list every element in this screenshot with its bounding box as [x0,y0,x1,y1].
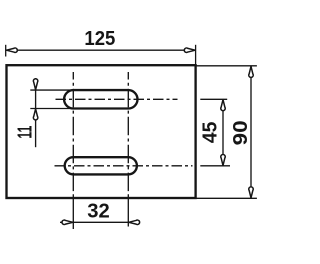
slot (obround hole) top [64,90,137,108]
centerline horizontal of bottom slot [55,165,193,167]
dimension 11: upper arrow (points down to slot top edge) [33,79,38,90]
dimension 32: right extension line (below plate) [127,199,129,227]
slot (obround hole) bottom [65,157,137,174]
dimension 90: lower extension line (plate bottom edge extended) [196,197,257,199]
dimension 125: right arrow [184,48,195,53]
dimension 90: upper extension line (plate top edge extended) [196,65,257,67]
dimension 11: lower arrow (points up to slot bottom edge) [33,109,38,120]
plate outline [7,65,196,198]
centerline vertical left (through both slots) [72,72,74,199]
dimension 11: dimension line [35,78,37,147]
dimension 32: dimension line [60,221,139,223]
dimension 90: upper arrow (points up) [249,66,254,77]
centerline horizontal of top slot [56,98,178,100]
dimension 45: upper arrow (points up) [221,100,226,111]
dimension 45: upper extension line (top slot centerline extended) [200,98,227,100]
svg-text:11: 11 [15,126,37,139]
dimension 32: right arrow (outside, points left) [129,220,140,225]
svg-text:45: 45 [200,122,222,144]
dimension 125: left arrow [6,48,17,53]
dimension 11: upper extension line (slot top edge extended) [30,89,73,91]
dimension 32: left arrow (outside, points right) [62,220,73,225]
dimension 125: left extension tick [5,45,7,57]
dimension 125: right extension line [195,45,197,65]
dimension 45: dimension line [222,100,224,166]
dimension 32: left extension line (below plate) [72,199,74,230]
dimension 90: lower arrow (points down) [249,187,254,198]
svg-text:90: 90 [230,120,252,145]
dimension 125: dimension line [6,49,196,51]
centerline vertical right (through both slots) [127,72,129,199]
dimension 45: lower arrow (points down) [221,154,226,165]
dimension 45: lower extension line (bottom slot centerline extended) [200,165,230,167]
svg-text:125: 125 [84,28,115,50]
dimension 90: dimension line [250,66,252,198]
dimension 11: lower extension line (slot bottom edge extended) [30,108,73,110]
svg-text:32: 32 [87,201,110,223]
